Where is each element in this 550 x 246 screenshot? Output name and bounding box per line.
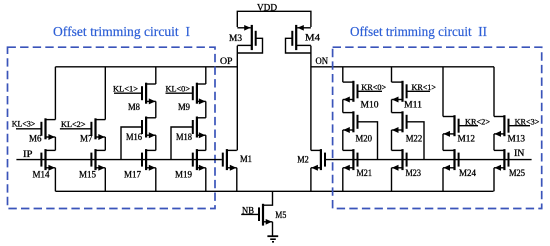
svg-text:KL<2>: KL<2> — [61, 119, 86, 129]
svg-text:KL<0>: KL<0> — [166, 84, 191, 94]
wire OP rail tee to M9 drain — [205, 67, 207, 84]
transistor M3 (PMOS diode-connected load) — [237, 25, 262, 53]
svg-text:M9: M9 — [178, 103, 190, 113]
svg-text:M14: M14 — [33, 171, 50, 181]
wire M8 source to M16 drain — [155, 101, 157, 117]
offset trimming box II (dashed) — [333, 47, 542, 208]
wire M10 source to M20 drain — [342, 100, 344, 113]
wire M20 source to M21 drain — [342, 130, 344, 150]
svg-text:IN: IN — [514, 149, 525, 159]
svg-text:VDD: VDD — [257, 2, 277, 12]
wire OP node: M3 drain to M1 drain — [236, 46, 238, 151]
wire M22 gate to IN trunk — [407, 122, 424, 160]
wire M9 source to M18 drain — [205, 101, 207, 117]
wire M6 source to M14 drain — [54, 137, 56, 150]
wire M19 source to tail — [205, 168, 207, 192]
wire KR<0> gate stub — [358, 90, 382, 92]
svg-text:M7: M7 — [80, 134, 93, 144]
wire M25 source to tail — [493, 168, 495, 192]
svg-text:M22: M22 — [406, 135, 423, 145]
transistor M2 (input pair right) — [311, 149, 326, 171]
wire OP rail corner to M6 drain — [54, 67, 56, 120]
transistor M5 (tail current source) — [241, 204, 272, 226]
transistor M14 (input device, IP) — [40, 149, 55, 171]
wire OP rail tee to M7 drain — [104, 67, 106, 120]
svg-text:M20: M20 — [356, 135, 373, 145]
node OP rail — [55, 66, 237, 68]
svg-text:KR<1>: KR<1> — [412, 82, 437, 92]
transistor M10 (trim switch KR<0>) — [343, 81, 359, 103]
svg-text:M15: M15 — [79, 171, 96, 181]
wire KL<2> gate stub — [60, 128, 91, 130]
wire tail to M5 drain — [264, 191, 273, 205]
transistor M15 — [90, 149, 105, 171]
wire M13 source to M25 drain — [493, 134, 495, 151]
transistor M16 (cascode) — [141, 117, 156, 139]
transistor M25 — [494, 149, 510, 171]
svg-text:M25: M25 — [509, 169, 525, 179]
svg-text:M3: M3 — [229, 34, 242, 44]
wire KL<1> gate stub — [114, 92, 141, 94]
wire M15 source to tail — [104, 168, 106, 192]
wire M24 source to tail — [442, 168, 444, 192]
wire M1 source to tail — [236, 168, 238, 192]
transistor M8 (trim switch KL<1>) — [141, 83, 156, 105]
tail node rail — [55, 190, 493, 192]
svg-text:M12: M12 — [458, 135, 476, 145]
wire KL<3> gate stub — [16, 128, 41, 130]
wire ON rail corner to M13 drain — [493, 67, 495, 117]
transistor M11 (trim switch KR<1>) — [392, 81, 408, 103]
svg-text:M5: M5 — [275, 211, 286, 221]
svg-text:M11: M11 — [404, 101, 422, 111]
power rail VDD — [237, 11, 311, 27]
svg-text:ON: ON — [316, 56, 329, 66]
wire M20 gate to IN trunk — [358, 122, 378, 160]
transistor M4 (PMOS diode-connected load) — [286, 25, 311, 53]
wire ON node: M4 drain to M2 drain — [310, 46, 312, 151]
wire M23 source to tail — [391, 168, 393, 192]
svg-text:M10: M10 — [361, 101, 379, 111]
wire ON rail tee to M12 drain — [442, 67, 444, 117]
svg-text:KR<0>: KR<0> — [361, 82, 386, 92]
wire M16 gate to IP trunk — [121, 127, 141, 160]
wire KR<3> gate stub — [509, 125, 530, 127]
svg-text:OP: OP — [220, 56, 233, 66]
transistor M19 — [192, 149, 206, 171]
svg-text:Offset trimming circuit I: Offset trimming circuit I — [53, 24, 190, 39]
transistor M13 (trim switch KR<3>) — [494, 115, 510, 137]
svg-text:M21: M21 — [357, 169, 373, 179]
svg-text:M23: M23 — [406, 169, 422, 179]
wire M17 source to tail — [155, 168, 157, 192]
svg-text:M2: M2 — [297, 156, 309, 166]
wire KR<2> gate stub — [459, 125, 478, 127]
svg-text:M17: M17 — [124, 171, 141, 181]
transistor M23 — [392, 149, 408, 171]
wire M11 source to M22 drain — [391, 100, 393, 113]
svg-text:M19: M19 — [175, 171, 192, 181]
svg-text:M4: M4 — [305, 33, 320, 43]
wire ON rail tee to M11 drain — [391, 67, 393, 82]
node ON rail — [311, 66, 494, 68]
svg-text:KR<3>: KR<3> — [515, 117, 540, 127]
transistor M24 — [443, 149, 460, 171]
transistor M12 (trim switch KR<2>) — [443, 115, 460, 137]
wire OP rail tee to M8 drain — [155, 67, 157, 84]
transistor M18 (cascode) — [192, 117, 206, 139]
wire M21 source to tail — [342, 168, 344, 192]
svg-text:KL<1>: KL<1> — [113, 84, 138, 94]
ground — [267, 236, 278, 242]
wire IP trunk — [16, 159, 222, 161]
transistor M7 (trim switch KL<2>) — [90, 118, 105, 140]
wire M16 source to M17 drain — [155, 135, 157, 150]
wire M18 gate to IP trunk — [171, 127, 192, 160]
svg-text:KL<3>: KL<3> — [12, 118, 36, 128]
wire M5 source to ground — [272, 222, 274, 236]
svg-text:M18: M18 — [176, 133, 192, 143]
wire ON rail tee to M10 drain — [342, 67, 344, 82]
svg-text:NB: NB — [242, 206, 254, 216]
wire IN trunk — [326, 159, 532, 161]
svg-text:M24: M24 — [459, 169, 476, 179]
transistor M9 (trim switch KL<0>) — [192, 83, 206, 105]
svg-text:M13: M13 — [508, 135, 526, 145]
wire KR<1> gate stub — [407, 90, 430, 92]
svg-text:M8: M8 — [128, 103, 140, 113]
wire KL<0> gate stub — [166, 92, 193, 94]
transistor M6 (trim switch KL<3>) — [40, 118, 55, 140]
svg-text:M1: M1 — [240, 155, 252, 165]
wire M12 source to M24 drain — [442, 134, 444, 151]
svg-text:Offset trimming circuit II: Offset trimming circuit II — [350, 24, 487, 39]
transistor M22 (cascode) — [392, 111, 408, 133]
wire M22 source to M23 drain — [391, 130, 393, 150]
svg-text:IP: IP — [23, 150, 33, 160]
transistor M1 (input pair left) — [222, 149, 237, 171]
wire M7 source to M15 drain — [104, 137, 106, 150]
wire M2 source to tail — [310, 168, 312, 192]
svg-text:M6: M6 — [29, 134, 42, 144]
transistor M17 — [141, 149, 156, 171]
svg-text:KR<2>: KR<2> — [465, 117, 490, 127]
wire M18 source to M19 drain — [205, 135, 207, 150]
transistor M20 (cascode) — [343, 111, 359, 133]
wire M14 source to tail — [54, 168, 56, 192]
transistor M21 — [343, 149, 359, 171]
svg-text:M16: M16 — [126, 133, 142, 143]
offset trimming box I (dashed) — [8, 47, 216, 208]
